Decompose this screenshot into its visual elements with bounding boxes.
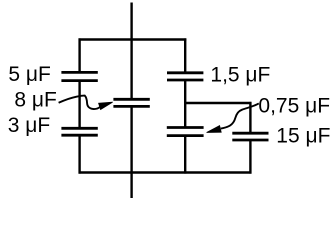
leader arrow from 8 uF label to center capacitor	[59, 96, 113, 110]
wire: right branch middle	[184, 80, 186, 128]
capacitor C6 15uF	[232, 133, 268, 140]
label 5 uF	[8, 63, 50, 86]
wire: bottom rail	[79, 171, 252, 173]
wire: top rail	[79, 38, 187, 40]
capacitor C2 3uF	[61, 128, 97, 135]
wire: center vertical top lead	[130, 3, 132, 100]
capacitor C3 8uF (center)	[113, 99, 149, 106]
label 8 uF	[14, 88, 56, 111]
label 1,5 uF	[210, 64, 270, 87]
capacitor C5 0,75uF	[167, 128, 204, 136]
wire: right branch lower	[184, 136, 186, 174]
wire: left branch upper	[78, 38, 80, 72]
capacitor C1 5uF	[61, 72, 97, 80]
svg-text:8 μF: 8 μF	[14, 88, 56, 111]
wire: center vertical bottom lead	[130, 106, 132, 198]
svg-text:15 μF: 15 μF	[276, 124, 330, 147]
wire: 15uF branch upper	[249, 102, 251, 133]
label 15 uF	[276, 124, 330, 147]
wire: left branch lower	[78, 135, 80, 173]
label 0,75 uF	[258, 95, 330, 118]
svg-text:5 μF: 5 μF	[8, 63, 50, 86]
wire: right branch upper	[184, 38, 186, 72]
wire: 15uF branch lower	[249, 140, 251, 174]
svg-text:0,75 μF: 0,75 μF	[258, 95, 330, 118]
svg-text:1,5 μF: 1,5 μF	[210, 64, 270, 87]
svg-text:3 μF: 3 μF	[8, 114, 50, 137]
wire: left branch middle	[78, 81, 80, 129]
wire: mid-right horizontal	[184, 102, 251, 104]
label 3 uF	[8, 114, 50, 137]
leader arrow from 0,75 uF label to right lower capacitor	[207, 103, 259, 132]
capacitor C4 1,5uF	[167, 73, 203, 80]
